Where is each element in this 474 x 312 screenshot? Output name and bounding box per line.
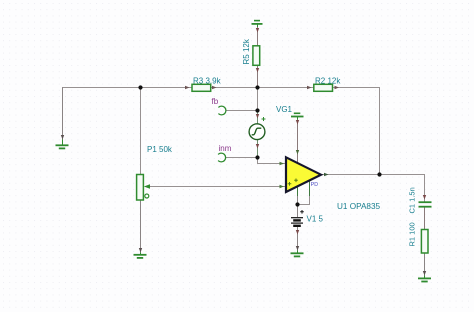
jumper fb xyxy=(218,106,226,115)
svg-text:R1 100: R1 100 xyxy=(407,222,416,246)
pin arrow C1 top xyxy=(423,195,426,200)
svg-text:inm: inm xyxy=(219,144,232,153)
power supply bar VCC top xyxy=(252,21,263,27)
label R2 value xyxy=(315,77,341,86)
label V1 value xyxy=(307,215,324,224)
wire node A drop to P1 xyxy=(140,88,142,175)
wire out net to C1 corner xyxy=(380,175,425,203)
label op-amp PD pin xyxy=(311,182,318,188)
wire VG supply bar to op-amp V+ xyxy=(297,118,299,165)
wire left top rail xyxy=(62,87,192,89)
resistor R2 xyxy=(314,84,333,91)
wire PD pin bend to battery node xyxy=(298,181,310,205)
wire R3 to R2 segment xyxy=(211,87,315,89)
wire supply bar to R5 xyxy=(257,25,259,47)
resistor R3 xyxy=(192,84,211,91)
pin arrow R2 right xyxy=(335,86,340,89)
label R5 value xyxy=(242,38,251,64)
wire C1 to R1 xyxy=(424,208,426,230)
pin arrow R3 right xyxy=(212,86,217,89)
wire R5 bottom to rail xyxy=(257,65,259,88)
wire left drop to ground xyxy=(62,88,64,140)
label VG1 xyxy=(276,105,293,114)
svg-text:R2 12k: R2 12k xyxy=(315,77,341,86)
label U1 value xyxy=(337,202,381,211)
wire fb hook to node xyxy=(226,110,258,112)
pin arrow R3 left xyxy=(185,86,190,89)
op-amp U1 xyxy=(286,157,321,192)
resistor R5 xyxy=(253,46,260,66)
svg-text:R5 12k: R5 12k xyxy=(242,38,251,64)
pin arrow op-amp IN- xyxy=(280,162,285,165)
svg-text:VG1: VG1 xyxy=(276,105,293,114)
label fb xyxy=(212,97,219,106)
pin arrow R5 bottom xyxy=(256,68,259,73)
wire inm hook to node xyxy=(226,157,258,159)
pin arrow V1 bottom xyxy=(296,230,299,235)
power supply bar at op-amp V+ xyxy=(291,113,304,119)
pin arrow ground V1 xyxy=(296,246,299,251)
pin arrow op-amp IN+ xyxy=(280,185,285,188)
ground P1 xyxy=(134,253,147,258)
pin arrow VG1 top xyxy=(256,114,259,119)
pin arrow op-amp V+ xyxy=(296,120,299,155)
wire P1 bottom to ground xyxy=(140,200,142,255)
wire op-amp V- to battery node xyxy=(297,185,299,217)
wire inm node to op-amp IN- xyxy=(258,158,287,164)
voltage generator VG1 xyxy=(249,117,265,140)
svg-text:C1 1.5n: C1 1.5n xyxy=(407,187,416,213)
node rail junction xyxy=(255,85,259,89)
label inm xyxy=(219,144,232,153)
pin arrow op-amp output xyxy=(324,173,329,176)
pin arrow ground left xyxy=(61,135,64,140)
node out junction xyxy=(377,172,381,176)
resistor R1 xyxy=(421,230,428,254)
battery V1 xyxy=(291,210,304,226)
svg-text:V1 5: V1 5 xyxy=(307,215,324,224)
pin arrow R2 left xyxy=(307,86,312,89)
wire battery to ground xyxy=(297,227,299,254)
svg-text:U1 OPA835: U1 OPA835 xyxy=(337,202,381,211)
ground R1 xyxy=(418,276,431,282)
wire rail to fb node xyxy=(257,88,259,111)
svg-text:R3 3.9k: R3 3.9k xyxy=(193,77,222,86)
pin arrow R5 top xyxy=(256,28,259,33)
label C1 value xyxy=(407,187,416,213)
pin arrow VG1 bottom xyxy=(256,144,259,149)
jumper inm xyxy=(218,153,226,162)
pin arrow ground P1 xyxy=(139,248,142,253)
svg-text:fb: fb xyxy=(212,97,219,106)
wire VG1 bottom to inm node xyxy=(257,140,259,158)
node A junction xyxy=(138,85,142,89)
label R1 value xyxy=(407,222,416,246)
wire op-amp output to out net xyxy=(321,174,380,176)
wire fb node to VG1 xyxy=(257,111,259,125)
capacitor C1 xyxy=(419,202,432,207)
pin arrow ground R1 xyxy=(423,271,426,276)
wire R1 to ground xyxy=(424,253,426,279)
ground left xyxy=(56,140,69,149)
node inm junction xyxy=(255,155,259,159)
node V1 junction xyxy=(295,202,299,206)
potentiometer P1 xyxy=(137,175,160,201)
label R3 value xyxy=(193,77,222,86)
wire R2 to right corner down xyxy=(333,88,380,175)
wire P1 wiper to op-amp IN+ xyxy=(150,186,286,188)
svg-text:PD: PD xyxy=(311,182,318,188)
label P1 value xyxy=(147,145,173,154)
node fb junction xyxy=(255,108,259,112)
ground V1 xyxy=(291,251,304,257)
svg-text:P1 50k: P1 50k xyxy=(147,145,173,154)
